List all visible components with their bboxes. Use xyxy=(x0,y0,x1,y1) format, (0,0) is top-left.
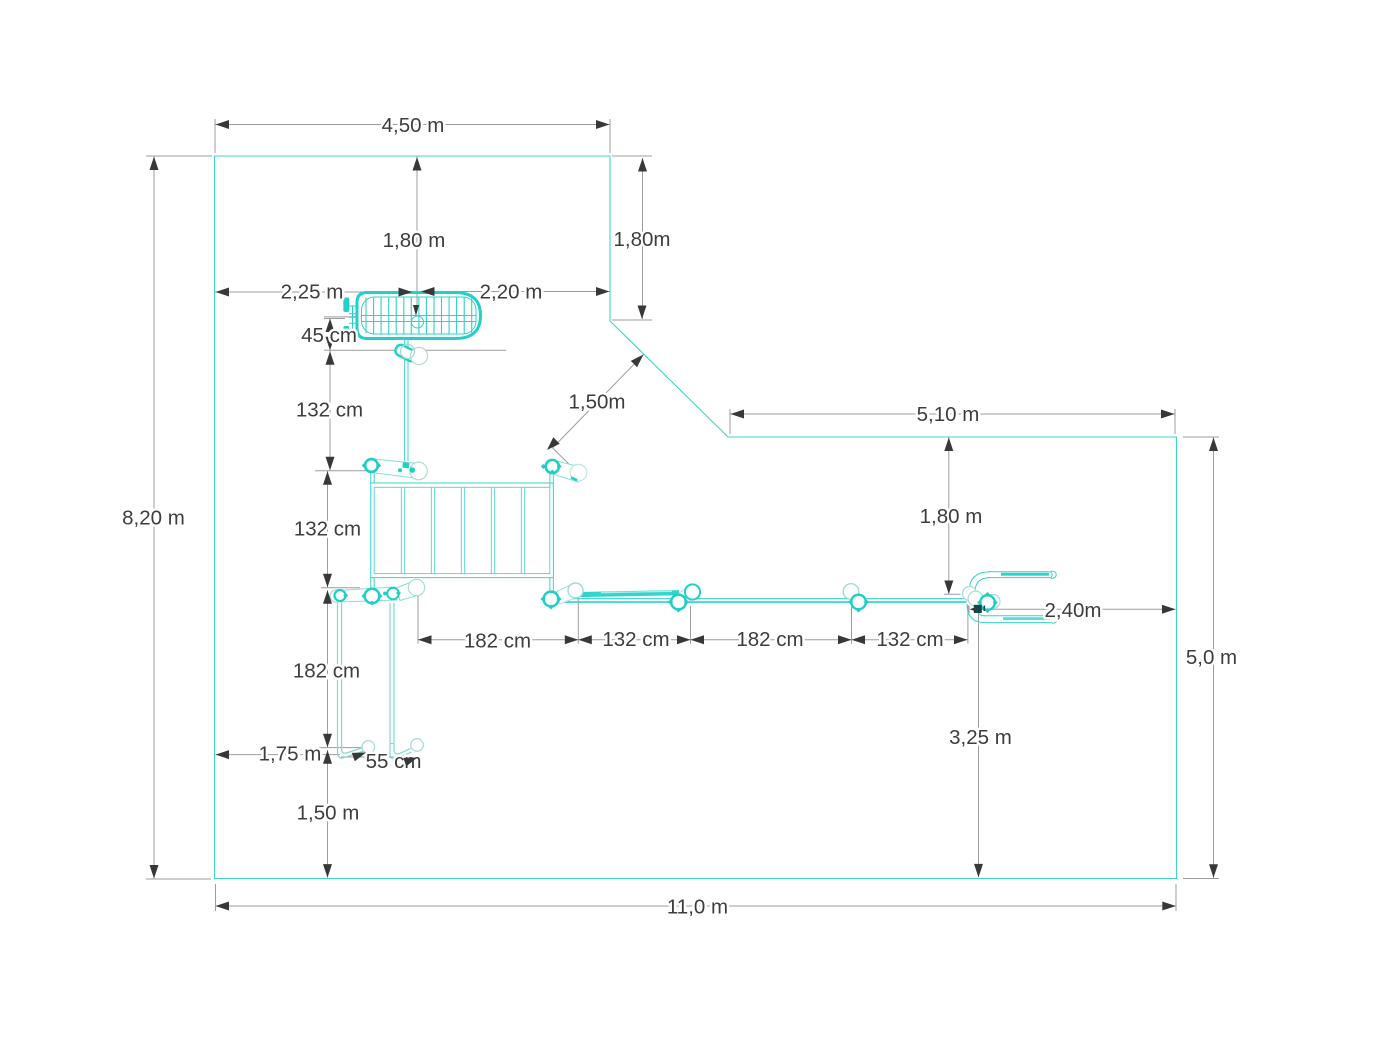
cluster F2 xyxy=(668,584,700,612)
2,40m arrows xyxy=(1162,605,1176,614)
svg-text:132 cm: 132 cm xyxy=(876,628,943,651)
svg-text:1,75 m: 1,75 m xyxy=(259,743,322,766)
fork mount circles xyxy=(963,587,1001,614)
bench center ext line xyxy=(324,316,356,318)
dim 11,0 m ext lines xyxy=(216,884,1177,911)
1,50 m vertical arrows xyxy=(323,750,332,764)
dim 2,20 m line xyxy=(421,291,610,293)
svg-text:55 cm: 55 cm xyxy=(366,750,422,773)
2,20 m arrows xyxy=(421,287,435,296)
dim 11,0 m line xyxy=(216,905,1177,907)
dim 5,0 m line xyxy=(1213,438,1215,879)
svg-text:182 cm: 182 cm xyxy=(293,660,360,683)
dimension texts xyxy=(122,114,1237,919)
bench center detail circle xyxy=(412,316,424,328)
svg-text:2,25 m: 2,25 m xyxy=(281,281,344,304)
horizontal bar xyxy=(558,599,966,603)
dim 1,80m right line xyxy=(642,158,644,319)
dim 5,10 m ext lines xyxy=(730,409,1175,434)
45 cm arrows xyxy=(326,319,335,333)
svg-text:8,20 m: 8,20 m xyxy=(122,507,185,530)
55 cm leader arrows over text xyxy=(352,753,418,767)
dim 1,80 m top line xyxy=(416,156,418,305)
bench lounger body xyxy=(357,293,481,339)
132 cm first arrows xyxy=(326,351,335,365)
dim 8,20 m line xyxy=(153,156,155,879)
svg-text:1,50m: 1,50m xyxy=(569,391,626,414)
ladder rungs xyxy=(401,487,524,573)
bench mid rails xyxy=(362,316,477,322)
svg-text:1,50 m: 1,50 m xyxy=(297,802,360,825)
bench inner frame xyxy=(362,297,477,334)
chain arrows xyxy=(418,635,432,644)
ropes to hooks xyxy=(338,603,412,759)
svg-text:11,0 m: 11,0 m xyxy=(667,896,728,919)
horizontal chain dim line xyxy=(418,639,968,641)
svg-text:132 cm: 132 cm xyxy=(296,399,363,422)
dim 1,80 m middle line xyxy=(948,438,950,595)
dim 182 cm vertical line xyxy=(327,590,329,747)
dim 132 cm second line xyxy=(327,471,329,588)
5,0 m arrows xyxy=(1209,438,1218,452)
handle C top-right xyxy=(541,460,587,483)
dim 5,10 m line xyxy=(731,413,1175,415)
dim 2,25 m line xyxy=(215,291,409,293)
svg-text:1,80 m: 1,80 m xyxy=(920,505,983,528)
arrowheads xyxy=(150,120,1219,911)
svg-text:182 cm: 182 cm xyxy=(464,630,531,653)
fork bottom arm xyxy=(967,604,1057,623)
svg-text:45 cm: 45 cm xyxy=(301,324,357,347)
dim 1,75 m line xyxy=(216,754,341,756)
svg-text:2,20 m: 2,20 m xyxy=(480,281,543,304)
4,50 m arrows xyxy=(216,120,230,129)
1,80 m middle arrows xyxy=(944,438,953,452)
dim 1,50m diagonal leader xyxy=(553,355,644,467)
equipment xyxy=(330,293,1057,759)
ext line at 594.3 xyxy=(944,593,961,595)
hook circle 2 xyxy=(411,739,424,752)
dim 4,50 m ext lines xyxy=(215,119,610,153)
bench slats xyxy=(366,298,472,334)
dim 55 cm line xyxy=(341,756,395,758)
beam plank xyxy=(578,590,680,597)
dim 8,20 m ext lines xyxy=(146,156,212,879)
ext line at 747.6 xyxy=(315,747,362,749)
dim 1,50 m vertical line xyxy=(327,750,329,878)
svg-text:1,80 m: 1,80 m xyxy=(383,229,446,252)
handle B top-left xyxy=(362,459,428,480)
svg-text:132 cm: 132 cm xyxy=(294,518,361,541)
svg-text:4,50 m: 4,50 m xyxy=(382,114,445,137)
ext line at 587.8 xyxy=(321,587,360,589)
1,80m right arrows xyxy=(638,158,647,172)
hook circle 1 xyxy=(362,741,375,754)
ladder frame xyxy=(371,483,554,578)
dim 132 cm first line xyxy=(329,350,331,471)
handle A below bench xyxy=(394,343,428,364)
fork top arm xyxy=(969,571,1056,592)
chain ext verticals xyxy=(418,593,968,644)
bench left bracket bars xyxy=(343,298,349,313)
2,25 m arrows xyxy=(216,288,230,297)
fork clamp dark xyxy=(974,605,982,613)
cluster F3 xyxy=(843,584,869,613)
1,75 m arrow xyxy=(216,750,230,759)
dim 45 cm line xyxy=(329,319,331,351)
svg-text:182 cm: 182 cm xyxy=(736,628,803,651)
ladder rail extensions xyxy=(371,472,554,592)
1,80 m top arrows xyxy=(413,157,422,171)
8,20 m arrows xyxy=(150,157,159,171)
dim 5,0 m ext lines xyxy=(1183,437,1219,879)
1,50m diagonal arrows xyxy=(631,355,644,368)
11,0 m arrows xyxy=(216,902,230,911)
cluster F1 xyxy=(540,583,583,610)
dim 1,80m right ext lines xyxy=(612,156,652,320)
182 cm vertical arrows xyxy=(323,590,332,604)
dim 1,80 m line overlay inside bench xyxy=(416,293,418,305)
5,10 m arrows xyxy=(731,410,745,419)
ext line at 470.8 xyxy=(315,470,368,472)
3,25 m arrow xyxy=(974,864,983,878)
svg-text:132 cm: 132 cm xyxy=(602,628,669,651)
cluster E left cap xyxy=(330,579,424,605)
svg-text:5,0 m: 5,0 m xyxy=(1186,646,1237,669)
dim 4,50 m line xyxy=(215,124,610,126)
dimension gray lines xyxy=(146,119,1219,911)
bar center gray line xyxy=(543,601,967,603)
svg-text:2,40m: 2,40m xyxy=(1045,599,1102,622)
bench pole xyxy=(405,339,408,461)
svg-text:3,25 m: 3,25 m xyxy=(949,726,1012,749)
room outline xyxy=(215,156,1177,879)
bench bracket lines xyxy=(349,306,358,331)
dim 45 cm ext lines xyxy=(324,319,506,351)
dim 2,40m line xyxy=(969,606,1176,614)
dim 3,25 m line xyxy=(978,614,980,878)
svg-text:5,10 m: 5,10 m xyxy=(917,403,980,426)
132 cm second arrows xyxy=(323,471,332,485)
svg-text:1,80m: 1,80m xyxy=(614,228,671,251)
